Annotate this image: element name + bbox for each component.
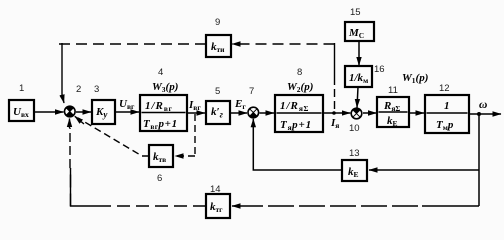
node label: Iвг [188,99,201,112]
wire: block 4 to block 5 [187,112,205,114]
svg-text:16: 16 [374,64,385,75]
wire: block 5 to summer 7 [230,112,247,114]
wire: arrow up into summer 2 bottom [69,119,71,129]
block 4: W3(p) = (1/Rвг)/(Твгp+1) [140,95,187,131]
wire: arrow up into summer 7 [252,119,254,128]
label: number 7 [249,86,254,97]
label: number 15 [350,7,361,18]
svg-text:7: 7 [249,86,254,97]
wire: Iя tap up [334,43,336,113]
block 3: Ку [92,100,115,124]
node label: Iя [330,117,339,130]
node: Iя tap junction dot [332,111,336,115]
wire: block 15 to block 16 [358,41,360,66]
wire: block 16 to summer 10 [357,87,358,108]
svg-text:14: 14 [210,184,221,195]
wire: block 14 to corner below summer 2 (dashed) [71,168,207,206]
label: number 6 [157,173,162,184]
wire: Iвг tap down (dashed) [194,114,196,156]
label: number 12 [439,83,450,94]
svg-text:15: 15 [350,7,361,18]
label: number 5 [215,86,220,97]
wire: into block 6 (dashed) [175,155,195,157]
summer 10 [351,108,362,119]
summer 2 [65,106,76,117]
wire: block 13 to summer 7 (up) [253,122,342,170]
summer 7 [248,107,259,118]
wire: corner to summer 2 (solid then dashed) [69,128,72,206]
wire: block 12 output ω [469,112,501,116]
label: number 2 [76,84,81,95]
wire: arrowhead of diagonal into summer 2 [75,116,84,124]
block 6: kтв [149,145,173,167]
block 9: kти [206,35,231,57]
label: W2(p) [287,81,313,94]
svg-text:10: 10 [349,123,360,134]
node label: Eг [234,98,246,111]
node: ω tap corner [478,114,480,170]
block 5: k'г [206,101,230,124]
wire: top feedback to block 9 (dashed) [232,43,335,45]
svg-text:3: 3 [94,84,99,95]
svg-text:8: 8 [297,67,302,78]
svg-text:6: 6 [157,173,162,184]
svg-text:9: 9 [215,17,220,28]
label: number 3 [94,84,99,95]
label: W1(p) [402,72,428,85]
label: number 8 [297,67,302,78]
svg-text:5: 5 [215,86,220,97]
wire: summer 7 to block 8 [260,112,275,114]
svg-text:Tяp+1: Tяp+1 [280,119,312,132]
wire: ω tap continues down to тг feedback [478,170,480,206]
svg-text:1: 1 [19,83,24,94]
wire: summer 2 to block 3 [76,111,91,113]
wire: ω feedback into block 13 [369,169,479,171]
label: number 16 [374,64,385,75]
wire: block 3 to block 4 [115,111,139,113]
block 16: 1/kм [345,66,372,87]
svg-text:Tвгp+1: Tвгp+1 [143,118,178,131]
label: number 1 [19,83,24,94]
svg-text:1: 1 [444,100,450,112]
label: number 9 [215,17,220,28]
block 14: kтг [206,194,230,218]
wire: block 11 to block 12 [409,112,424,114]
wire: block 6 to diagonal into summer 2 (dashed) [78,118,149,156]
svg-text:13: 13 [349,148,360,159]
label: number 13 [349,148,360,159]
label: number 4 [158,67,163,78]
block 1: Uвх [9,100,34,121]
svg-text:W2(p): W2(p) [287,81,313,94]
block 12: 1/(Tмp) [425,95,469,133]
label: number 11 [388,85,398,96]
node label: ω [479,99,487,111]
node label: Uвг [119,98,135,111]
wire: block 8 to summer 10 (Iя) [323,112,350,114]
wire: block 9 to corner above summer 2 (dashed) [57,43,206,45]
svg-text:2: 2 [76,84,81,95]
label: number 14 [210,184,221,195]
svg-text:4: 4 [158,67,163,78]
block 15: Mс [345,22,374,41]
wire: summer 10 to block 11 [363,112,377,114]
wire: vertical down to summer 2 top [61,43,63,95]
block 11: RяΣ/kE [377,97,409,128]
wire: arrow down into summer 2 top [62,95,64,103]
svg-text:12: 12 [439,83,450,94]
block 13: kE [342,160,367,181]
svg-text:W3(p): W3(p) [152,81,178,94]
label: number 10 [349,123,360,134]
label: W3(p) [152,81,178,94]
wire: bottom feedback into block 14 (dashed) [232,205,479,207]
svg-text:11: 11 [388,85,398,96]
block 8: W2(p) = (1/RяΣ)/(Tяp+1) [275,95,323,132]
svg-text:ω: ω [479,99,487,111]
wire: Uвх to summer 2 [34,111,64,113]
svg-text:W1(p): W1(p) [402,72,428,85]
